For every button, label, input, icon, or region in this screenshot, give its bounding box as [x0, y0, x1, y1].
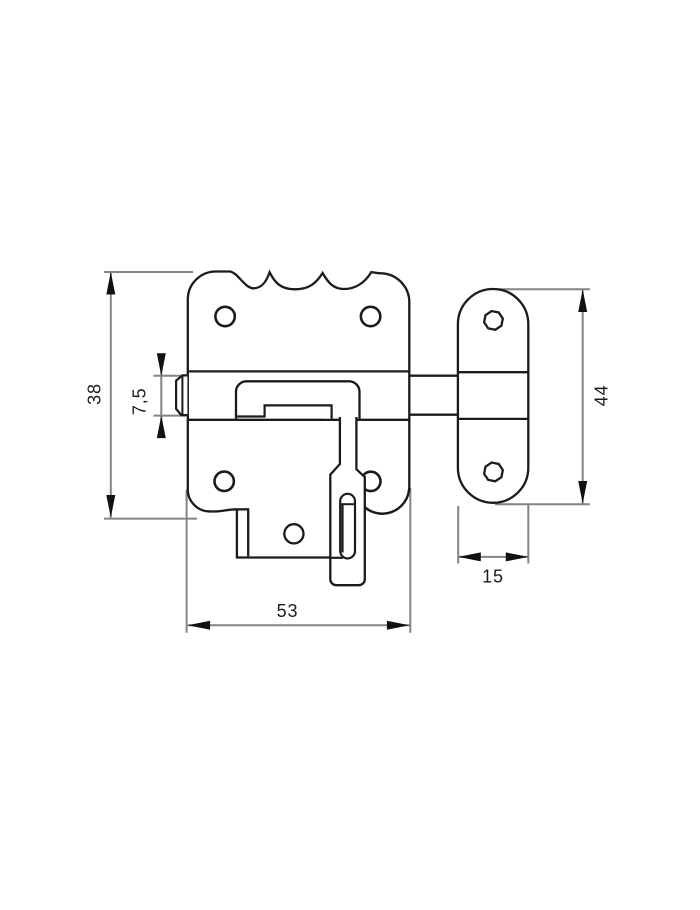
dimension 7,5 label [129, 387, 149, 415]
screw hole top-right [361, 307, 380, 326]
bolt channel bottom line right part [357, 419, 409, 421]
dimension 53 extension line right [409, 488, 411, 633]
dimension 53 line [188, 624, 410, 626]
bottom extension tab left outer edge [236, 510, 238, 558]
plate bottom edge right segment [364, 488, 409, 514]
dimension 38 arrow up [106, 272, 115, 295]
knob body fill [330, 417, 365, 585]
dimension 44 label [592, 384, 612, 406]
bottom extension tab left inner edge [247, 510, 249, 557]
tab bottom edge seen through slot [330, 557, 343, 559]
dimension 44 arrow down [578, 481, 587, 504]
dimension 38 extension line bottom [104, 518, 197, 520]
bolt head outline [176, 375, 187, 415]
dimension 15 extension line left [457, 506, 459, 564]
dimension 44 arrow up [578, 290, 587, 313]
dimension 38 line [110, 272, 112, 518]
bolt rod top edge [409, 375, 458, 377]
dimension 44 line [582, 290, 584, 504]
bolt channel bottom line left part [188, 419, 339, 421]
dimension 7,5 extension line top [154, 375, 187, 377]
svg-text:15: 15 [482, 566, 504, 586]
bolt head fill [176, 375, 187, 415]
bolt guide lip [235, 415, 265, 417]
plate edge seen through slot [340, 503, 355, 505]
dimension 38 extension line top [104, 271, 193, 273]
svg-text:7,5: 7,5 [129, 387, 149, 415]
dimension 38 arrow down [106, 495, 115, 518]
dimension 44 extension line bottom [495, 503, 590, 505]
screw hole top-left [215, 307, 234, 326]
main plate body fill [188, 272, 410, 514]
dimension 15 arrow right [506, 552, 529, 561]
dimension 7,5 line [160, 356, 162, 436]
dimension 15 extension line right [527, 505, 529, 564]
svg-text:53: 53 [277, 601, 299, 621]
bolt rod bottom edge [409, 414, 458, 416]
svg-text:38: 38 [85, 383, 105, 405]
dimension 44 extension line top [495, 288, 590, 290]
dimension 53 arrow left [188, 621, 211, 630]
dimension 7,5 arrow down [157, 353, 166, 376]
keeper screw hole top (octagon) [484, 311, 503, 330]
bottom extension tab bottom edge [236, 556, 341, 558]
knob outline [330, 417, 365, 585]
dimension 53 arrow right [387, 621, 410, 630]
bolt head face line [181, 375, 183, 415]
dimension 53 extension line left [186, 490, 188, 633]
bolt channel top line [188, 370, 409, 372]
keeper bridge top line [458, 371, 528, 373]
keeper plate fill [458, 289, 528, 503]
bottom extension tab hole [284, 524, 303, 543]
dimension 38 label [85, 383, 105, 405]
keeper plate outline [458, 289, 528, 503]
main plate outline [188, 272, 410, 514]
tab edge seen through slot [341, 505, 343, 553]
dimension 15 line [458, 556, 528, 558]
slider tab [265, 405, 332, 418]
dimension 7,5 arrow up [157, 416, 166, 439]
svg-text:44: 44 [592, 384, 612, 406]
knob slot [340, 494, 355, 559]
screw hole bottom-left [215, 472, 234, 491]
dimension 7,5 extension line bottom [154, 415, 187, 417]
screw hole bottom-right (partly hidden by knob) [361, 472, 380, 491]
dimension 15 arrow left [458, 552, 481, 561]
bolt guide bracket [236, 381, 360, 419]
keeper screw hole bottom (octagon) [484, 463, 503, 482]
keeper bridge bottom line [458, 418, 528, 420]
